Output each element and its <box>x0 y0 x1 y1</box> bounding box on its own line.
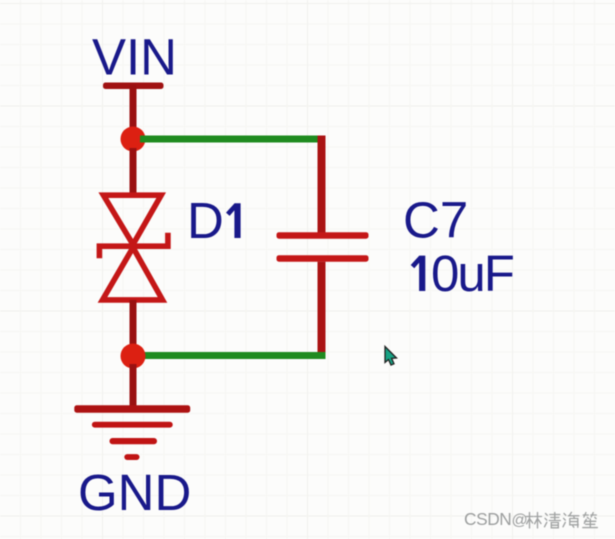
port bar for VIN <box>103 83 164 90</box>
wire VIN to node A <box>130 85 137 143</box>
node B junction dot <box>121 344 146 369</box>
svg-text:0uF: 0uF <box>431 245 514 302</box>
label D1 digit 1 <box>226 203 241 238</box>
ground bar 2 <box>92 422 173 428</box>
diode D1 bottom triangle (anode down) <box>103 248 163 300</box>
wire node B to ground <box>130 364 137 408</box>
wire capacitor branch top vertical <box>318 136 326 234</box>
svg-text:GND: GND <box>78 464 191 521</box>
watermark hanzi Qing <box>545 513 561 528</box>
capacitor C7 top plate <box>277 232 369 239</box>
svg-text:CSDN: CSDN <box>464 509 511 529</box>
ground bar 1 <box>74 405 190 412</box>
svg-text:C7: C7 <box>403 192 468 249</box>
wire capacitor bottom vertical <box>318 262 326 355</box>
wire (green) node B to capacitor branch bottom <box>140 352 326 359</box>
watermark hanzi Sheng <box>583 513 598 528</box>
ground bar 4 <box>124 454 139 460</box>
diode D1 zener crossbar <box>99 233 167 258</box>
label 10uF digit 1 <box>411 256 426 291</box>
capacitor C7 bottom plate <box>277 255 369 262</box>
wire node A to D1 <box>130 148 137 196</box>
wire D1 to node B <box>130 300 137 350</box>
wire (green) node A to capacitor branch <box>140 136 326 143</box>
ground bar 3 <box>110 438 158 444</box>
svg-text:VIN: VIN <box>92 29 177 86</box>
mouse cursor <box>385 347 397 366</box>
watermark hanzi Hai <box>563 512 579 527</box>
watermark hanzi Lin <box>526 513 541 529</box>
svg-text:@: @ <box>512 512 528 529</box>
diode D1 top triangle (cathode up) <box>103 195 161 244</box>
node A junction dot <box>121 127 146 152</box>
svg-text:D: D <box>187 192 224 249</box>
